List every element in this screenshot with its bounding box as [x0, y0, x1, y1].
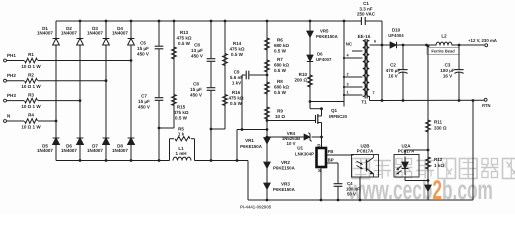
svg-text:PC817A: PC817A — [398, 149, 415, 154]
svg-text:1: 1 — [346, 91, 348, 95]
svg-text:1N4007: 1N4007 — [87, 31, 103, 36]
svg-text:10 Ω 1 W: 10 Ω 1 W — [21, 124, 41, 129]
svg-text:0.5 W: 0.5 W — [274, 90, 287, 95]
svg-text:0.5 W: 0.5 W — [274, 49, 287, 54]
svg-text:0.5 W: 0.5 W — [178, 41, 191, 46]
svg-text:13 μF: 13 μF — [191, 48, 203, 53]
svg-text:C3: C3 — [445, 63, 451, 68]
svg-text:680 kΩ: 680 kΩ — [274, 43, 289, 48]
svg-text:PI-4441-092905: PI-4441-092905 — [240, 205, 272, 210]
svg-text:+12 V, 230 mA: +12 V, 230 mA — [468, 38, 498, 43]
svg-text:L2: L2 — [441, 34, 447, 39]
svg-text:VR3: VR3 — [281, 182, 290, 187]
svg-text:1N4007: 1N4007 — [87, 148, 103, 153]
svg-text:0.5 W: 0.5 W — [274, 68, 287, 73]
svg-text:R3: R3 — [28, 92, 34, 97]
svg-text:D6: D6 — [317, 52, 323, 57]
svg-text:200 Ω: 200 Ω — [295, 78, 308, 83]
svg-text:330 Ω: 330 Ω — [434, 126, 447, 131]
svg-text:450 V: 450 V — [138, 105, 150, 110]
svg-text:0.5 W: 0.5 W — [230, 101, 243, 106]
svg-text:C1: C1 — [363, 1, 369, 6]
svg-text:NC: NC — [346, 42, 353, 47]
svg-text:R7: R7 — [277, 57, 283, 62]
svg-text:680 kΩ: 680 kΩ — [274, 85, 289, 90]
svg-text:475 kΩ: 475 kΩ — [173, 110, 188, 115]
svg-text:1N4007: 1N4007 — [37, 31, 53, 36]
svg-text:PH2: PH2 — [7, 73, 16, 78]
svg-text:LNK304P: LNK304P — [295, 152, 314, 157]
svg-text:C2: C2 — [390, 63, 396, 68]
svg-text:U1: U1 — [297, 146, 303, 151]
svg-text:VR5: VR5 — [320, 29, 329, 34]
svg-text:P6KE150A: P6KE150A — [273, 187, 296, 192]
svg-text:10 Ω 1 W: 10 Ω 1 W — [21, 64, 41, 69]
svg-text:D10: D10 — [392, 28, 401, 33]
svg-text:R10: R10 — [299, 72, 308, 77]
svg-text:R14: R14 — [233, 41, 242, 46]
svg-text:R9: R9 — [277, 109, 283, 114]
svg-text:R16: R16 — [232, 90, 241, 95]
svg-text:475 kΩ: 475 kΩ — [229, 47, 244, 52]
svg-text:C9: C9 — [234, 70, 240, 75]
svg-text:470 μF: 470 μF — [386, 68, 401, 73]
svg-text:1N4007: 1N4007 — [112, 31, 128, 36]
svg-text:100 nF: 100 nF — [346, 186, 360, 191]
svg-text:R2: R2 — [28, 72, 34, 77]
svg-text:2: 2 — [346, 73, 348, 77]
svg-text:R11: R11 — [434, 120, 443, 125]
svg-text:UF4007: UF4007 — [316, 57, 332, 62]
svg-text:VR2: VR2 — [281, 160, 290, 165]
svg-text:450 V: 450 V — [191, 54, 203, 59]
svg-text:D: D — [317, 143, 320, 148]
svg-text:50 V: 50 V — [347, 192, 356, 197]
svg-text:3: 3 — [346, 83, 348, 87]
svg-text:450 V: 450 V — [190, 93, 202, 98]
svg-text:10 Ω 1 W: 10 Ω 1 W — [21, 104, 41, 109]
svg-text:16 V: 16 V — [388, 74, 397, 79]
svg-text:R6: R6 — [277, 38, 283, 43]
svg-text:P6KE150A: P6KE150A — [273, 166, 296, 171]
svg-text:100 μF: 100 μF — [440, 68, 455, 73]
svg-text:1 k: 1 k — [178, 132, 185, 137]
svg-text:450 V: 450 V — [137, 52, 149, 57]
svg-text:PH1: PH1 — [7, 53, 16, 58]
svg-text:1 mH: 1 mH — [175, 151, 186, 156]
svg-text:16 V: 16 V — [443, 74, 452, 79]
svg-text:PH3: PH3 — [7, 93, 16, 98]
svg-text:EE-16: EE-16 — [358, 34, 371, 39]
svg-text:RTN: RTN — [482, 103, 490, 108]
svg-text:1N4007: 1N4007 — [37, 148, 53, 153]
svg-text:IRFBC20: IRFBC20 — [329, 114, 348, 119]
svg-text:0.5 W: 0.5 W — [231, 52, 244, 57]
svg-text:N: N — [7, 113, 10, 118]
svg-text:VR1: VR1 — [245, 138, 254, 143]
svg-text:C6: C6 — [140, 41, 146, 46]
svg-text:FB: FB — [328, 149, 334, 154]
svg-text:6: 6 — [374, 40, 376, 44]
svg-text:1N4007: 1N4007 — [112, 148, 128, 153]
svg-text:10 Ω 1 W: 10 Ω 1 W — [21, 84, 41, 89]
svg-text:P6KE150A: P6KE150A — [316, 34, 339, 39]
svg-text:UF4004: UF4004 — [388, 33, 404, 38]
svg-text:R8: R8 — [277, 79, 283, 84]
svg-text:0.5 W: 0.5 W — [175, 116, 188, 121]
svg-text:680 kΩ: 680 kΩ — [274, 63, 289, 68]
svg-text:PC817A: PC817A — [357, 149, 374, 154]
svg-text:R12: R12 — [434, 157, 443, 162]
svg-text:3.3 nF: 3.3 nF — [359, 6, 372, 11]
svg-text:1N4007: 1N4007 — [61, 31, 77, 36]
svg-text:5.6 nF: 5.6 nF — [230, 75, 243, 80]
svg-text:T1: T1 — [361, 100, 367, 105]
svg-text:R13: R13 — [180, 30, 189, 35]
svg-text:C7: C7 — [141, 94, 147, 99]
svg-text:C8: C8 — [193, 82, 199, 87]
svg-text:7: 7 — [372, 91, 374, 95]
svg-text:475 kΩ: 475 kΩ — [176, 36, 191, 41]
svg-text:C4: C4 — [347, 181, 353, 186]
svg-text:R4: R4 — [28, 113, 34, 118]
svg-text:R1: R1 — [28, 52, 34, 57]
svg-text:C8: C8 — [194, 43, 200, 48]
svg-text:P6KE150A: P6KE150A — [240, 144, 263, 149]
svg-text:15 μF: 15 μF — [190, 87, 202, 92]
svg-text:15 μF: 15 μF — [137, 46, 149, 51]
svg-text:BP: BP — [328, 157, 334, 162]
svg-text:10 Ω: 10 Ω — [275, 114, 285, 119]
svg-text:15 μF: 15 μF — [138, 99, 150, 104]
svg-text:R15: R15 — [177, 105, 186, 110]
svg-text:1 kV: 1 kV — [232, 81, 241, 86]
svg-text:Q1: Q1 — [331, 108, 338, 113]
svg-text:Ferrite Bead: Ferrite Bead — [431, 49, 455, 54]
svg-text:1N4007: 1N4007 — [61, 148, 77, 153]
svg-text:1 kΩ: 1 kΩ — [434, 163, 444, 168]
svg-text:250 VAC: 250 VAC — [357, 12, 376, 17]
svg-text:10 V: 10 V — [287, 141, 296, 146]
